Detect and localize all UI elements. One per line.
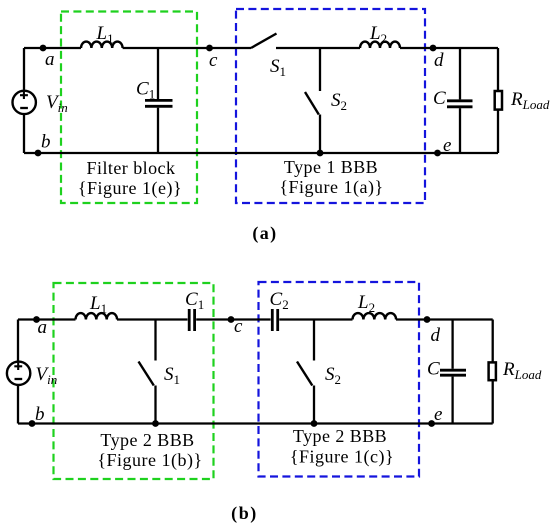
switch S2 lower wire (fig b) [313, 386, 315, 424]
capacitor C1 plates (fig a) [145, 100, 173, 106]
capacitor C plates (fig b) [440, 370, 466, 375]
wire left vertical upper (fig a) [23, 48, 25, 90]
svg-text:d: d [431, 325, 441, 346]
green dashed box: Type 2 BBB (fig b) [54, 283, 214, 479]
switch S1 blade (fig a) [251, 34, 277, 49]
svg-text:c: c [209, 50, 218, 71]
wire top rail L2 to R branch (fig a) [400, 47, 498, 49]
wire bottom rail (fig b) [18, 422, 493, 424]
inductor L1 (fig a) [81, 42, 123, 48]
node c dot (fig a) [206, 45, 213, 52]
node at S2 bottom (fig a) [317, 150, 324, 157]
node d dot (fig b) [424, 316, 431, 323]
svg-text:b: b [41, 132, 51, 153]
node e dot (fig b) [428, 420, 435, 427]
node a dot (fig a) [40, 45, 47, 52]
blue dashed box: Type 2 BBB (fig b) [259, 282, 420, 477]
svg-text:a: a [38, 317, 48, 338]
wire top rail left segment (fig b) [18, 318, 76, 320]
resistor RLoad body (fig b) [489, 362, 496, 380]
wire top rail L2 to R branch (fig b) [396, 318, 493, 320]
svg-text:{Figure 1(a)}: {Figure 1(a)} [279, 177, 383, 198]
node d dot (fig a) [430, 45, 437, 52]
svg-text:Type 1 BBB: Type 1 BBB [284, 157, 378, 177]
svg-text:(b): (b) [231, 503, 258, 524]
wire left vertical upper (fig b) [17, 320, 19, 361]
resistor RLoad body (fig a) [495, 91, 502, 110]
node a dot (fig b) [33, 316, 40, 323]
wire top rail L1 to C1 (fig b) [117, 318, 188, 320]
capacitor C2 plates (fig b) [272, 309, 277, 331]
svg-text:C: C [433, 88, 446, 109]
capacitor C plates (fig a) [447, 101, 473, 107]
svg-text:e: e [434, 404, 442, 425]
resistor RLoad branch upper wire (fig a) [497, 48, 499, 91]
inductor L2 (fig b) [353, 313, 397, 319]
node c dot (fig b) [228, 316, 235, 323]
capacitor C branch lower wire (fig b) [451, 377, 453, 424]
wire left vertical lower (fig a) [23, 115, 25, 153]
voltage source Vin (fig b) [7, 362, 30, 385]
inductor L2 (fig a) [360, 42, 400, 48]
inductor L1 (fig b) [76, 313, 118, 319]
resistor RLoad branch lower wire (fig b) [492, 380, 494, 423]
resistor RLoad branch upper wire (fig b) [492, 320, 494, 363]
green dashed box: Filter block (fig a) [61, 12, 197, 204]
svg-text:e: e [443, 135, 451, 156]
capacitor C1 branch upper wire (fig a) [157, 48, 159, 99]
blue dashed box: Type 1 BBB (fig a) [236, 9, 425, 203]
switch S1 blade (fig b) [139, 362, 154, 386]
svg-text:{Figure 1(c)}: {Figure 1(c)} [290, 447, 394, 468]
wire bottom rail (fig a) [24, 152, 498, 154]
svg-text:b: b [35, 404, 45, 425]
voltage source Vin (fig a) [13, 91, 36, 114]
wire top rail left segment (fig a) [24, 47, 81, 49]
capacitor C1 branch lower wire (fig a) [157, 108, 159, 153]
wire top rail S1 to L2 (fig a) [276, 47, 360, 49]
switch S2 blade (fig b) [297, 362, 312, 386]
svg-text:C: C [427, 359, 440, 380]
node e dot (fig a) [434, 150, 441, 157]
svg-text:{Figure 1(e)}: {Figure 1(e)} [78, 178, 182, 199]
switch S2 blade (fig a) [305, 92, 319, 115]
switch S1 lower wire (fig b) [154, 386, 156, 424]
svg-text:Filter block: Filter block [87, 158, 176, 178]
svg-text:d: d [434, 50, 444, 71]
switch S2 upper wire (fig b) [313, 320, 315, 361]
resistor RLoad branch lower wire (fig a) [497, 110, 499, 153]
wire top rail C2 to L2 (fig b) [279, 318, 352, 320]
switch S2 upper wire (fig a) [319, 48, 321, 91]
switch S1 upper wire (fig b) [154, 320, 156, 361]
node at S1 bottom (fig b) [152, 420, 159, 427]
capacitor C branch upper wire (fig a) [459, 48, 461, 99]
wire left vertical lower (fig b) [17, 386, 19, 424]
wire top rail L1 to S1 (fig a) [123, 47, 251, 49]
wire top rail C1 to C2 (fig b) [196, 318, 270, 320]
switch S2 lower wire (fig a) [319, 115, 321, 154]
node b dot (fig b) [29, 420, 36, 427]
svg-text:a: a [45, 49, 55, 70]
capacitor C branch lower wire (fig a) [459, 108, 461, 153]
capacitor C1 plates (fig b) [189, 309, 194, 331]
svg-text:Type 2 BBB: Type 2 BBB [293, 426, 387, 446]
node b dot (fig a) [35, 150, 42, 157]
svg-text:c: c [234, 316, 243, 337]
svg-text:{Figure 1(b)}: {Figure 1(b)} [97, 450, 202, 471]
capacitor C branch upper wire (fig b) [451, 320, 453, 369]
svg-text:Type 2 BBB: Type 2 BBB [100, 430, 194, 450]
svg-text:(a): (a) [252, 223, 277, 244]
node at S2 bottom (fig b) [311, 420, 318, 427]
